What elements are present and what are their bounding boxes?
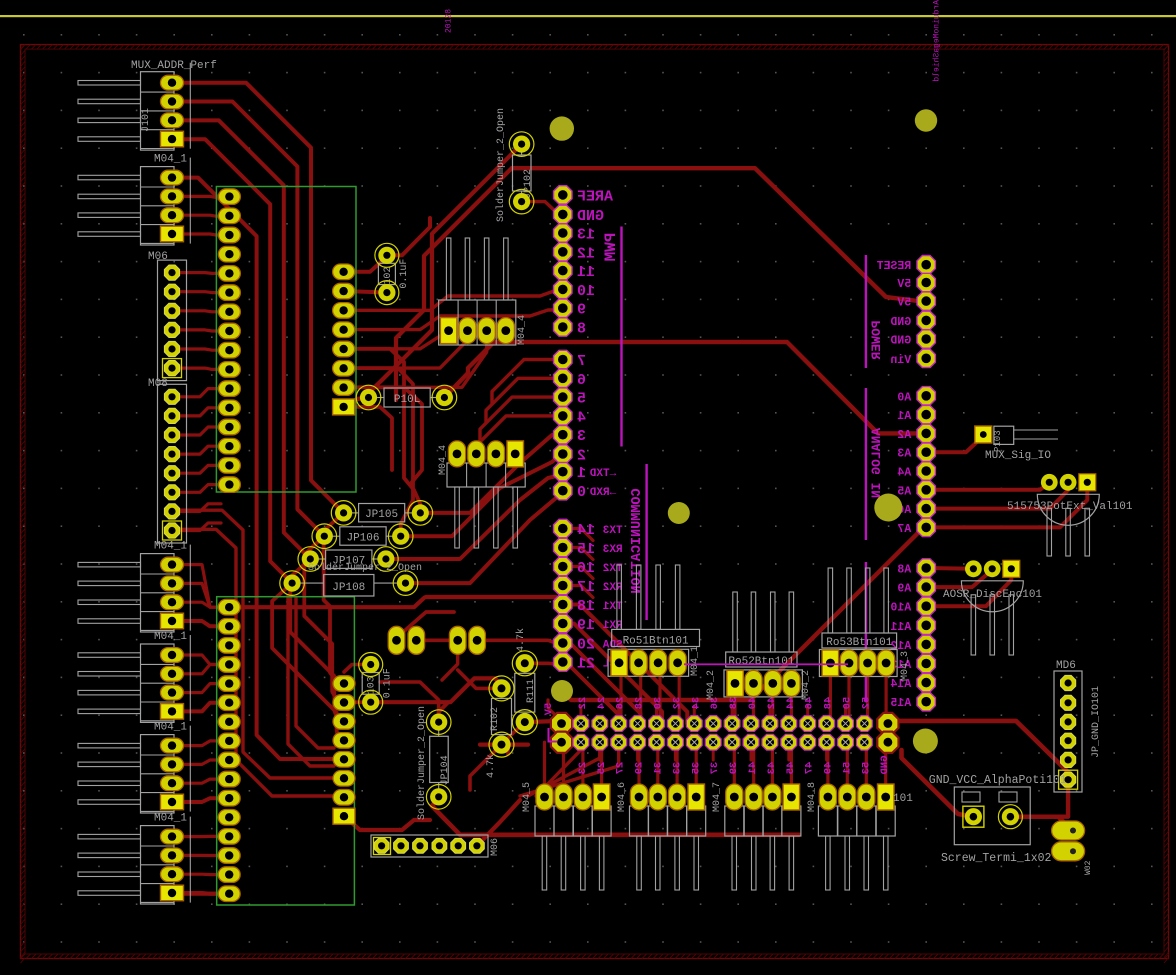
wire J2 col3 down: [636, 742, 639, 760]
wire Ro53 pad down: [847, 674, 850, 724]
svg-text:18: 18: [577, 598, 595, 615]
jumper pads pair 2: [388, 626, 424, 654]
wire comm stub 2: [563, 567, 593, 579]
svg-text:31: 31: [653, 762, 665, 775]
wire M04_1 g3 pin 3: [180, 684, 221, 693]
wire C102-2: [344, 291, 387, 293]
encoder AOSR_DiscEnc101: [943, 560, 1042, 655]
wire box2 vbus1: [296, 598, 334, 748]
svg-text:49: 49: [823, 762, 835, 775]
svg-text:R111: R111: [526, 679, 537, 703]
svg-text:515753PotExt_Val101: 515753PotExt_Val101: [1007, 501, 1133, 513]
svg-text:35: 35: [690, 762, 702, 775]
svg-text:A4: A4: [897, 467, 911, 480]
wire MD6 sq down: [1010, 780, 1068, 817]
connector M04_4 lower: [438, 441, 525, 548]
wire J2 col2 up: [617, 706, 620, 724]
svg-text:53: 53: [860, 762, 872, 775]
svg-text:101: 101: [893, 793, 913, 805]
svg-text:M04_8: M04_8: [807, 782, 818, 812]
svg-text:→RXD: →RXD: [589, 487, 616, 499]
wire M06 pin 4: [179, 330, 221, 331]
wire J2 col5 down: [674, 742, 677, 760]
wire bottom conn up: [865, 742, 868, 784]
header U1 digital pins: [554, 186, 572, 672]
capacitor C103: [359, 653, 394, 715]
svg-text:P10L: P10L: [394, 394, 420, 406]
svg-text:16: 16: [577, 560, 595, 577]
svg-text:5: 5: [577, 391, 586, 408]
svg-text:20128: 20128: [445, 9, 454, 33]
wire box1r to 10: [344, 291, 563, 311]
header box1 left column: [218, 189, 240, 493]
wire J2 col0 up: [579, 706, 582, 724]
svg-text:4.7k: 4.7k: [485, 754, 497, 778]
wire M06 pin 2: [179, 290, 221, 294]
connector M04_6: [617, 782, 706, 890]
svg-text:MUX_Sig_IO: MUX_Sig_IO: [985, 450, 1051, 462]
svg-text:14: 14: [577, 522, 595, 539]
svg-text:W02: W02: [1084, 860, 1093, 875]
wire J2 col8 up: [731, 706, 734, 724]
header J2 double row 18x2: [551, 713, 899, 753]
silk line POWER bracket: [865, 255, 867, 368]
svg-text:RX2: RX2: [603, 582, 623, 594]
wire M04_1 g4 pin 4: [180, 798, 221, 802]
wire bottom conn up: [884, 742, 887, 784]
svg-text:M04_6: M04_6: [617, 782, 628, 812]
svg-text:M04_1: M04_1: [154, 722, 187, 734]
wire JP107 to box2: [290, 559, 344, 721]
svg-text:13: 13: [577, 227, 595, 244]
via V4: [913, 729, 938, 754]
wire Ro51 pad down: [619, 674, 622, 724]
svg-text:GND: GND: [577, 208, 604, 225]
wire fan 1: [563, 624, 662, 724]
silk line COMMUNICATION bracket: [645, 464, 647, 620]
wire net D8 to A2: [444, 342, 926, 433]
connector J101 MUX_ADDR_Perf: [78, 60, 217, 150]
wire Ro51 pad down: [678, 674, 681, 724]
wire M04_1 g5 pin 3: [180, 873, 221, 877]
silk line Ro51-Ro52: [684, 663, 848, 665]
labels power pins: [877, 260, 912, 367]
svg-text:A15: A15: [890, 697, 911, 710]
wire A8 to enc1: [926, 566, 973, 571]
wire Ro53 pad down: [829, 674, 832, 724]
svg-text:A10: A10: [890, 602, 911, 615]
wire box1r to M04_4a: [344, 331, 449, 349]
wire comm stub 3: [563, 586, 593, 598]
wire Ro51 pad down: [658, 674, 661, 724]
wire JP106 right bus: [401, 453, 563, 536]
wire JP108 right bus: [406, 493, 563, 583]
svg-text:43: 43: [766, 762, 778, 775]
hole H1: [550, 116, 574, 140]
wire comm stub 0: [563, 529, 593, 541]
wire net bundle diag2: [512, 168, 927, 301]
svg-text:44: 44: [785, 697, 797, 710]
header U1 power pins: [917, 256, 935, 368]
connector M06 bottom: [371, 835, 501, 857]
svg-text:J101: J101: [141, 108, 152, 132]
svg-text:SolderJumper_2_Open: SolderJumper_2_Open: [308, 562, 422, 574]
connector M04_8: [807, 782, 895, 890]
svg-text:POWER: POWER: [869, 320, 884, 359]
svg-text:3: 3: [577, 428, 586, 445]
svg-text:M04_1: M04_1: [154, 541, 187, 553]
jumper JP102: [509, 132, 534, 214]
connector M04_1 (1): [78, 154, 190, 245]
wire JP105 right bus: [420, 435, 563, 513]
wire pair pads stub: [442, 652, 458, 680]
wire bottom conn up: [846, 742, 849, 784]
wire J2 col1 down: [598, 742, 601, 760]
wire bottom conn up: [656, 742, 659, 784]
svg-text:25: 25: [596, 762, 608, 775]
wire J2 col9 down: [750, 742, 753, 760]
wire Ro51 pad down: [639, 674, 642, 724]
header U1 analog pins: [917, 387, 935, 711]
wire M04_1 g3 pin 4: [180, 703, 221, 712]
svg-text:JP104: JP104: [440, 755, 451, 785]
svg-text:0.1uF: 0.1uF: [383, 668, 394, 698]
wire stub 7: [492, 360, 563, 404]
wire M04_1 g2 pin 4: [180, 621, 221, 626]
svg-text:ArduinoMegaShield: ArduinoMegaShield: [933, 0, 942, 82]
svg-text:RX1: RX1: [602, 620, 622, 632]
wire box2 sq out: [344, 816, 430, 830]
svg-text:Ro51Btn101: Ro51Btn101: [623, 636, 689, 648]
screw terminal Screw_Termi_1x02: [929, 774, 1067, 865]
wire M04_1 pin to header: [180, 196, 222, 197]
svg-text:12: 12: [577, 245, 595, 262]
wire diag to M06b: [477, 800, 520, 846]
svg-text:30: 30: [653, 697, 665, 710]
wire Ro52 pad down: [771, 695, 774, 724]
wire Ro53 pad down: [884, 674, 887, 724]
svg-text:7: 7: [577, 353, 586, 370]
wire J2 col10 up: [768, 706, 771, 724]
wire box2 pad1 to feeder: [240, 598, 425, 608]
silk line ANALOG bracket 2: [865, 562, 867, 702]
wire M04_1 bus: [178, 178, 336, 759]
svg-text:SolderJumper_2_Open: SolderJumper_2_Open: [416, 706, 428, 820]
wire M04_1 g5 pin 4: [180, 891, 221, 896]
wire R111 bot to J2: [525, 721, 562, 722]
wire JP104 top: [380, 682, 439, 722]
svg-text:41: 41: [747, 762, 759, 775]
wire screw to W02: [1010, 817, 1068, 831]
svg-text:A8: A8: [897, 564, 911, 577]
wire A3 to P103: [926, 436, 983, 452]
wire M06 pin 3: [179, 311, 221, 312]
connector MD6 JP_GND_IO101: [1054, 660, 1102, 792]
wire R102 top: [458, 670, 502, 688]
svg-text:RESET: RESET: [877, 260, 912, 273]
svg-text:5V: 5V: [897, 278, 911, 291]
wire M08 pin 1: [179, 389, 221, 397]
wire J2 down diag 2: [520, 742, 619, 796]
connector M06 left: [148, 251, 187, 381]
jumper JP108: [280, 571, 418, 596]
connector M04_5: [522, 782, 611, 890]
wire M08 pin 4: [179, 446, 221, 454]
wire Ro52 pad down: [790, 695, 793, 724]
module outline box 2: [217, 597, 355, 905]
header box2 right column: [333, 676, 355, 825]
svg-text:ANALOG IN: ANALOG IN: [869, 428, 884, 498]
wire M04_1 g4 pin 1: [180, 741, 221, 746]
wire box2 vbus2: [288, 596, 334, 766]
jumper P10L: [356, 385, 457, 410]
wire A6 to pot2: [926, 490, 1068, 509]
pot ext 515753PotExt_Val101: [1007, 474, 1133, 556]
wire M06 pin 5: [179, 349, 221, 350]
svg-text:M04_2: M04_2: [801, 670, 812, 700]
svg-text:GND: GND: [890, 316, 911, 329]
wire diag above box2sq: [402, 612, 454, 633]
svg-text:45: 45: [785, 762, 797, 775]
wire to screw 1: [902, 750, 974, 817]
wire bottom conn up: [543, 742, 546, 784]
svg-text:M04_1: M04_1: [690, 646, 701, 676]
connector M04_4 upper: [439, 238, 528, 345]
jumper JP107: [298, 547, 398, 572]
svg-text:M04_1: M04_1: [154, 631, 187, 643]
wire box1r to M04_4b: [344, 340, 468, 368]
wire J2 down diag 0: [536, 742, 581, 796]
wire JP105 to box2: [324, 513, 344, 684]
jumper JP104: [426, 710, 451, 809]
wire bottom conn up: [733, 742, 736, 784]
wire JP108 to box2: [272, 583, 344, 740]
svg-text:M04_4: M04_4: [517, 315, 528, 345]
wire Ro53 pad down: [866, 674, 869, 724]
hole H2: [915, 109, 937, 131]
via V3: [551, 680, 573, 702]
svg-text:JP_GND_IO101: JP_GND_IO101: [1091, 686, 1102, 758]
svg-text:23: 23: [577, 762, 589, 775]
wire feeder 597: [426, 597, 564, 605]
wire stub 6: [486, 378, 563, 422]
wire diag2 left tail: [396, 168, 512, 400]
wire M08 pin 8: [179, 523, 221, 531]
wire JP104 top join: [439, 702, 448, 722]
svg-text:Ro52Btn101: Ro52Btn101: [728, 656, 794, 668]
svg-text:A7: A7: [897, 523, 911, 536]
svg-text:37: 37: [709, 762, 721, 775]
header box1 right column: [333, 264, 355, 415]
wire box1r to 9: [344, 310, 563, 330]
svg-text:5V: 5V: [897, 297, 911, 310]
button Ro51Btn101: [608, 565, 699, 676]
svg-text:GND: GND: [879, 756, 891, 775]
svg-text:A0: A0: [897, 391, 911, 404]
wire corner c1: [344, 349, 421, 513]
connector P103: [975, 426, 1058, 462]
wire stub 5: [480, 397, 563, 441]
wire J2 col11 down: [787, 742, 790, 760]
svg-text:A12: A12: [890, 640, 911, 653]
wire M08 pin 5: [179, 465, 221, 473]
wire A9 to enc2: [926, 570, 992, 587]
svg-text:11: 11: [577, 264, 595, 281]
dimension line: [0, 15, 1176, 17]
svg-text:MD6: MD6: [1056, 660, 1076, 672]
svg-text:TX3: TX3: [602, 525, 622, 537]
labels digital pins: [577, 188, 623, 672]
svg-text:47: 47: [804, 762, 816, 775]
wire bottom conn up: [826, 742, 829, 784]
wire fan 3: [563, 662, 619, 724]
connector M04_1 (4): [78, 722, 190, 813]
svg-text:JP106: JP106: [346, 533, 379, 545]
svg-text:21: 21: [577, 656, 595, 673]
wire stub 4: [474, 416, 563, 460]
button Ro53Btn101: [819, 568, 897, 677]
wire M04_1 g2 pin 1: [180, 565, 221, 608]
wire pair link: [416, 638, 449, 642]
wire M06 pin 1: [179, 271, 221, 275]
wire M08 feeder 2: [179, 529, 336, 796]
wire corner c4: [344, 407, 392, 470]
wire M08 pin 7: [179, 504, 221, 512]
svg-text:20: 20: [577, 637, 595, 654]
connector M08 left: [148, 378, 187, 543]
button Ro52Btn101: [724, 592, 802, 697]
svg-text:PWM: PWM: [602, 233, 620, 262]
wire bus diag3: [369, 144, 522, 397]
svg-text:29: 29: [634, 762, 646, 775]
wire J101 pin 2 bus: [178, 102, 324, 537]
wire bottom conn up: [637, 742, 640, 784]
wire Ro52 pad down: [752, 695, 755, 724]
silk line ANALOG bracket: [865, 388, 867, 540]
svg-text:38: 38: [728, 697, 740, 710]
svg-text:R102: R102: [490, 707, 501, 731]
wire bottom conn up: [562, 742, 565, 784]
svg-text:4: 4: [577, 409, 586, 426]
copper traces group: [178, 83, 1087, 894]
svg-text:32: 32: [671, 697, 683, 710]
svg-text:JP105: JP105: [365, 509, 398, 521]
wire JP106 to box2: [304, 536, 344, 702]
svg-text:24: 24: [596, 697, 608, 710]
svg-text:M04_2: M04_2: [706, 670, 717, 700]
wire bottom conn up: [771, 742, 774, 784]
svg-text:M04_3: M04_3: [900, 651, 911, 681]
wire M08 pin 6: [179, 485, 221, 493]
wire M04_1 g3 pin 2: [180, 665, 221, 674]
svg-text:GND_VCC_AlphaPoti101: GND_VCC_AlphaPoti101: [929, 774, 1067, 787]
via V2: [874, 494, 902, 522]
wire J2 down diag 1: [528, 742, 600, 796]
wire M04_1 g3 pin 1: [180, 655, 221, 665]
jumper JP106: [312, 524, 413, 549]
svg-text:52: 52: [860, 697, 872, 710]
svg-text:SolderJumper_2_Open: SolderJumper_2_Open: [495, 108, 507, 222]
svg-text:50: 50: [842, 697, 854, 710]
wire J101 pin 1 bus: [178, 83, 344, 513]
wire pair to pad20: [477, 640, 563, 643]
wire A10 to enc3: [926, 569, 1011, 606]
svg-text:Vin: Vin: [890, 354, 911, 367]
svg-text:33: 33: [671, 762, 683, 775]
wire M04_1 g4 pin 3: [180, 779, 221, 783]
wire M08 pin 3: [179, 427, 221, 435]
via V1: [668, 502, 690, 524]
svg-text:P103: P103: [993, 430, 1003, 452]
svg-text:←TXD: ←TXD: [589, 468, 616, 480]
wire M04_1 pin to header: [180, 215, 222, 216]
wire A7 to pot3: [926, 483, 1087, 527]
wire J2 col14 up: [844, 706, 847, 724]
connector M04_1 (3): [78, 631, 190, 722]
wire fan 0: [563, 605, 687, 724]
wire bottom conn up: [675, 742, 678, 784]
svg-text:42: 42: [766, 697, 778, 710]
svg-text:0: 0: [577, 484, 586, 501]
svg-text:48: 48: [823, 697, 835, 710]
wire JP102-2 to GND: [522, 202, 563, 215]
svg-text:9: 9: [577, 302, 586, 319]
wire A5 to pot1: [926, 483, 1049, 490]
svg-text:A2: A2: [897, 429, 911, 442]
svg-text:Ro53Btn101: Ro53Btn101: [826, 637, 892, 649]
labels double row header: [543, 697, 891, 775]
wire M04_1 g4 pin 2: [180, 760, 221, 764]
wire box1r to M04_4c: [344, 340, 487, 387]
svg-text:MUX_ADDR_Perf: MUX_ADDR_Perf: [131, 60, 217, 72]
svg-text:34: 34: [690, 697, 702, 710]
resistor R111: [512, 628, 537, 735]
svg-text:JP108: JP108: [332, 582, 365, 594]
wire Ro52 pad down: [733, 695, 736, 724]
wire C102-1: [344, 257, 387, 272]
svg-text:4.7k: 4.7k: [515, 628, 527, 652]
svg-text:39: 39: [728, 762, 740, 775]
wire J2 col6 up: [693, 706, 696, 724]
module outline box 1: [216, 187, 356, 493]
wire J2 col12 up: [806, 706, 809, 724]
svg-text:COMMUNICATION: COMMUNICATION: [630, 488, 645, 593]
wire sq to P10L: [344, 398, 369, 407]
wire J2 row1 left: [548, 700, 562, 721]
svg-text:6: 6: [577, 372, 586, 389]
wire bottom conn up: [581, 742, 584, 784]
wire R102 bot: [470, 745, 502, 790]
connector M04_1 (5): [78, 813, 190, 904]
wire JP107 right bus: [386, 475, 563, 559]
connector M04_1 (2): [78, 541, 190, 632]
svg-text:2: 2: [577, 448, 586, 465]
wire J2 col13 down: [825, 742, 828, 760]
svg-text:M04_1: M04_1: [154, 154, 187, 166]
svg-text:19: 19: [577, 617, 595, 634]
wire M04_1 g5 pin 1: [180, 835, 221, 838]
svg-text:AREF: AREF: [577, 188, 613, 205]
svg-text:M08: M08: [148, 378, 168, 390]
svg-text:28: 28: [634, 697, 646, 710]
wire bottom conn up: [752, 742, 755, 784]
svg-text:51: 51: [842, 762, 854, 775]
wire corner c2: [344, 368, 413, 536]
svg-text:40: 40: [747, 697, 759, 710]
svg-text:M04_5: M04_5: [522, 782, 533, 812]
wire M04_1 g2 pin 3: [180, 602, 221, 607]
svg-text:8: 8: [577, 321, 586, 338]
